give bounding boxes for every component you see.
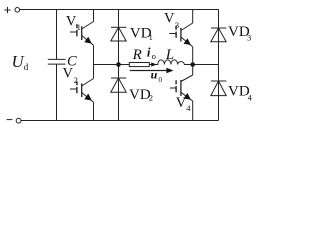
current arrow i_o bbox=[151, 62, 157, 66]
node b junction dot bbox=[190, 62, 195, 67]
svg-text:V: V bbox=[164, 10, 175, 26]
transistor V2 (IGBT) bbox=[70, 65, 94, 121]
svg-text:4: 4 bbox=[186, 103, 191, 113]
svg-text:i: i bbox=[147, 45, 151, 60]
bottom rail wire bbox=[21, 120, 219, 122]
svg-text:V: V bbox=[66, 13, 77, 29]
svg-text:2: 2 bbox=[74, 75, 78, 85]
svg-text:U: U bbox=[12, 52, 25, 71]
svg-text:V: V bbox=[176, 95, 187, 111]
transistor V4 (IGBT) bbox=[170, 65, 193, 121]
svg-text:4: 4 bbox=[248, 92, 253, 102]
svg-text:1: 1 bbox=[149, 32, 153, 42]
node a junction dot bbox=[116, 62, 121, 67]
wire after resistor bbox=[149, 64, 158, 66]
svg-text:u: u bbox=[151, 68, 158, 82]
svg-text:L: L bbox=[165, 47, 174, 63]
inductor L bbox=[158, 60, 186, 65]
diode VD4 bbox=[211, 65, 227, 121]
top rail wire bbox=[20, 9, 219, 11]
plus terminal bbox=[4, 7, 19, 13]
svg-text:V: V bbox=[63, 66, 74, 82]
svg-text:1: 1 bbox=[77, 22, 81, 32]
svg-text:VD: VD bbox=[228, 84, 250, 100]
voltage arrow u_o bbox=[130, 68, 174, 73]
svg-text:2: 2 bbox=[149, 93, 153, 103]
resistor R bbox=[129, 63, 149, 67]
wire mid-left bbox=[94, 64, 130, 66]
diode VD2 bbox=[111, 65, 127, 121]
transistor V3 (IGBT) bbox=[169, 10, 193, 65]
diode VD1 bbox=[111, 10, 127, 65]
svg-text:VD: VD bbox=[129, 87, 151, 103]
svg-text:o: o bbox=[152, 51, 156, 61]
svg-text:3: 3 bbox=[247, 33, 251, 43]
diode VD3 bbox=[211, 10, 227, 65]
svg-text:d: d bbox=[24, 62, 29, 72]
minus terminal bbox=[7, 118, 21, 123]
transistor V1 (IGBT) bbox=[70, 10, 94, 65]
capacitor C bbox=[48, 10, 66, 121]
wire to node b bbox=[186, 64, 219, 66]
svg-text:R: R bbox=[132, 47, 142, 63]
svg-text:0: 0 bbox=[158, 75, 162, 84]
svg-text:3: 3 bbox=[175, 20, 179, 30]
